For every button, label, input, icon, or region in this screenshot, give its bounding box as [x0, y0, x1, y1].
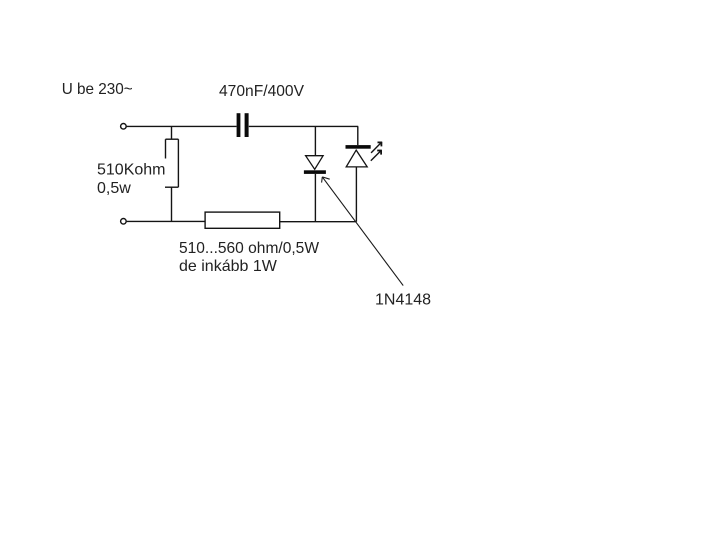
- resistor R2 body: [205, 212, 280, 228]
- wire diode branch bottom: [314, 174, 316, 222]
- svg-text:de inkább 1W: de inkább 1W: [179, 258, 278, 275]
- svg-text:U be 230~: U be 230~: [62, 81, 133, 98]
- LED D2 cathode bar: [346, 145, 371, 149]
- svg-text:0,5w: 0,5w: [97, 180, 131, 197]
- wire bottom right: [280, 221, 357, 223]
- annotation arrow to D1: [322, 177, 404, 286]
- capacitor C1 plate left: [237, 113, 241, 137]
- svg-text:470nF/400V: 470nF/400V: [219, 83, 304, 100]
- wire below R1: [171, 187, 173, 221]
- wire top right: [249, 125, 358, 127]
- wire junction drop to R1: [171, 126, 173, 139]
- terminal input top: [121, 124, 127, 130]
- diode D1 1N4148 triangle: [306, 156, 324, 170]
- wire bottom left: [127, 220, 206, 222]
- wire top left: [127, 125, 237, 127]
- wire LED branch top: [357, 126, 359, 145]
- svg-text:1N4148: 1N4148: [375, 292, 431, 309]
- wire diode branch top: [314, 126, 316, 155]
- capacitor C1 plate right: [245, 113, 249, 137]
- LED light arrow lower: [371, 150, 382, 160]
- terminal input bottom: [121, 219, 127, 225]
- diode D1 cathode bar: [304, 170, 326, 174]
- LED light arrow upper: [371, 142, 382, 153]
- svg-text:510...560 ohm/0,5W: 510...560 ohm/0,5W: [179, 240, 320, 257]
- svg-text:510Kohm: 510Kohm: [97, 162, 166, 179]
- wire LED branch bottom: [355, 167, 357, 222]
- LED D2 triangle: [346, 150, 367, 167]
- resistor R1 510Kohm body: [165, 139, 178, 187]
